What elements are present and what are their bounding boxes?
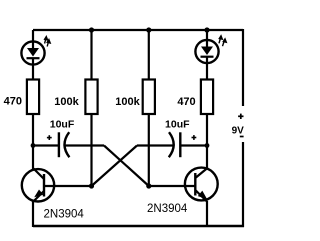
wire: Q1 emitter to ground rail	[32, 201, 34, 228]
wire: C2 plate to Q2 collector	[180, 144, 207, 146]
wire: rail to R2	[90, 30, 92, 80]
wire: R2 to node A	[90, 114, 92, 186]
resistor R1	[27, 80, 39, 115]
wire: C2 to crossover	[137, 144, 174, 146]
wire: Q2 emitter to ground rail	[206, 201, 208, 227]
svg-text:10uF: 10uF	[165, 119, 190, 131]
label + (C1)	[47, 135, 52, 140]
svg-text:2N3904: 2N3904	[147, 203, 188, 215]
wire: bottom ground rail	[33, 225, 244, 227]
wire: C1 to crossover	[65, 144, 104, 146]
label + (battery)	[238, 114, 243, 119]
wire: diagonal C2 to node A	[92, 146, 138, 187]
label + (C2)	[192, 135, 197, 140]
svg-text:100k: 100k	[54, 96, 79, 108]
node: junction dot Q2 collector / C2	[205, 143, 210, 148]
LED D2 emission arrows	[219, 36, 226, 46]
wire: top +9V rail	[33, 29, 243, 31]
node: junction dot rail/R3	[146, 27, 151, 32]
wire: node A to Q1 base	[44, 185, 92, 187]
svg-text:100k: 100k	[115, 96, 140, 108]
wire: LED D1 to R1	[32, 58, 34, 80]
node: junction dot Q1 collector / C1	[31, 143, 36, 148]
LED D1 emission arrows	[45, 37, 51, 47]
wire: LED D2 to R4	[206, 57, 208, 80]
LED D1	[21, 41, 44, 64]
svg-text:470: 470	[4, 96, 22, 108]
svg-text:9V: 9V	[232, 126, 245, 137]
transistor Q1	[22, 169, 54, 202]
wire: R4 to Q2 collector	[206, 114, 208, 169]
resistor R2	[85, 80, 97, 115]
label - (battery)	[240, 136, 244, 138]
resistor R3	[143, 80, 155, 115]
node: junction dot rail/R4	[204, 27, 209, 32]
wire: rail to R3	[148, 30, 150, 80]
svg-text:10uF: 10uF	[50, 119, 75, 131]
wire: node B to Q2 base	[149, 185, 196, 187]
resistor R4	[201, 80, 213, 115]
svg-text:470: 470	[177, 96, 195, 108]
LED D2	[195, 40, 218, 63]
transistor Q2	[185, 168, 218, 202]
wire: rail to LED D2	[206, 30, 208, 47]
wire: diagonal C1 to node B	[104, 146, 149, 187]
wire: R3 to node B	[148, 114, 150, 186]
capacitor C2	[169, 132, 181, 157]
node: junction dot A (Q1 base)	[89, 183, 94, 188]
capacitor C1	[59, 132, 70, 157]
wire: rail to LED D1	[32, 30, 34, 48]
svg-text:2N3904: 2N3904	[44, 209, 85, 221]
wire: Q1 collector to C1 plate	[33, 144, 58, 146]
node: junction dot rail/R2	[89, 27, 94, 32]
node: junction dot B (Q2 base)	[146, 183, 151, 188]
wire: right battery lead lower	[242, 142, 244, 227]
wire: right battery lead upper	[242, 29, 244, 106]
wire: R1 to Q1 collector	[32, 114, 34, 170]
